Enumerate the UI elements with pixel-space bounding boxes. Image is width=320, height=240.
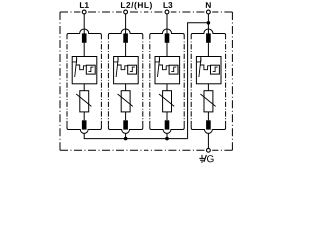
trip linkage (module L2) [117, 65, 127, 70]
label L2/(HL) [121, 2, 152, 10]
enclosure housing outline left (lower half) [59, 81, 61, 150]
disconnector box (module L2) [114, 57, 139, 84]
module L3 outline left side (dash-dot) [149, 42, 151, 125]
plug contact top (module N) [206, 33, 211, 42]
junction dot L2 on bus [124, 137, 128, 141]
step symbol inside indicator (module L3) [171, 67, 176, 72]
label N [206, 2, 211, 8]
varistor diagonal stroke (module L1) [76, 94, 91, 106]
disconnector box (module L1) [72, 57, 97, 84]
wire N module down to ground terminal [207, 133, 209, 148]
plug contact top (module L2) [123, 33, 128, 42]
wire L2 terminal down to top contact [125, 14, 127, 34]
disconnector switch blade (module L3) [158, 58, 160, 77]
module L1 outline right side (dash-dot) [100, 42, 102, 125]
trip linkage (module L3) [159, 65, 169, 70]
wire L3 drop to bus [166, 133, 168, 138]
terminal L3 [163, 10, 171, 13]
wire contact to disconnector box (N) [207, 43, 209, 57]
varistor body (module L3) [163, 91, 172, 112]
label L3 [164, 2, 173, 8]
enclosure housing outline bottom (left half) [60, 149, 146, 151]
label L1 [80, 2, 89, 8]
disconnector switch blade (module L1) [75, 58, 77, 77]
module L2 outline top edge with entry arc [108, 29, 142, 39]
module L1 outline top edge with entry arc [67, 29, 101, 39]
disconnector fixed contact lead (module L2) [114, 57, 118, 62]
wire varistor to bottom contact (N) [207, 112, 209, 120]
wire box to varistor (N) [207, 84, 209, 91]
wire box to varistor (L2) [125, 84, 127, 91]
module L2 outline left side (dash-dot) [107, 42, 109, 125]
trip indicator square (module L3) [169, 65, 178, 74]
wire box to varistor (L3) [166, 84, 168, 91]
plug contact top (module L3) [165, 33, 170, 42]
trip linkage (module L1) [76, 65, 86, 70]
module L1 outline bottom edge with exit arc [67, 124, 101, 133]
varistor diagonal stroke (module L3) [159, 94, 174, 106]
junction dot L3 on bus [165, 137, 169, 141]
earth symbol [199, 155, 204, 162]
ground terminal circle [205, 149, 213, 152]
varistor diagonal stroke (module N) [200, 94, 215, 106]
terminal L2 [122, 10, 130, 13]
enclosure housing outline bottom (right half) [146, 149, 232, 151]
disconnector box (module N) [196, 57, 221, 84]
wire L2 drop to bus [125, 133, 127, 138]
enclosure housing outline right (upper half) [231, 12, 233, 81]
plug contact bottom (module L3) [165, 120, 170, 129]
module N outline top edge with entry arc [191, 29, 225, 39]
wire bottom N bus [84, 133, 187, 138]
wire riser bus to N terminal [188, 23, 209, 139]
trip linkage (module N) [200, 65, 210, 70]
wire N terminal down to top contact [207, 14, 209, 34]
trip indicator square (module N) [211, 65, 220, 74]
module N outline left side (dash-dot) [190, 42, 192, 125]
varistor body (module N) [204, 91, 213, 112]
module L2 outline right side (dash-dot) [142, 42, 144, 125]
varistor body (module L1) [80, 91, 89, 112]
wire L3 terminal down to top contact [166, 14, 168, 34]
wire L1 terminal down to top contact [83, 14, 85, 34]
disconnector box (module L3) [155, 57, 180, 84]
varistor body (module L2) [121, 91, 130, 112]
wire contact to disconnector box (L2) [125, 43, 127, 57]
step symbol inside indicator (module N) [213, 67, 218, 72]
label /G [204, 155, 207, 162]
step symbol inside indicator (module L2) [130, 67, 135, 72]
module L3 outline bottom edge with exit arc [150, 124, 184, 133]
plug contact bottom (module L2) [123, 120, 128, 129]
wire contact to disconnector box (L1) [83, 43, 85, 57]
varistor diagonal stroke (module L2) [118, 94, 133, 106]
plug contact top (module L1) [82, 33, 87, 42]
enclosure housing outline left (upper half) [59, 12, 61, 81]
disconnector fixed contact lead (module N) [197, 57, 201, 62]
wire box to varistor (L1) [83, 84, 85, 91]
trip indicator square (module L2) [128, 65, 137, 74]
wire varistor to bottom contact (L1) [83, 112, 85, 120]
disconnector switch blade (module N) [199, 58, 201, 77]
module L3 outline right side (dash-dot) [183, 42, 185, 125]
plug contact bottom (module L1) [82, 120, 87, 129]
step symbol inside indicator (module L1) [89, 67, 94, 72]
disconnector switch blade (module L2) [116, 58, 118, 77]
module N outline bottom edge with exit arc [191, 124, 225, 133]
module L2 outline bottom edge with exit arc [108, 124, 142, 133]
plug contact bottom (module N) [206, 120, 211, 129]
trip indicator square (module L1) [86, 65, 95, 74]
disconnector fixed contact lead (module L1) [73, 57, 77, 62]
module N outline right side (dash-dot) [225, 42, 227, 125]
terminal L1 [80, 10, 88, 13]
disconnector fixed contact lead (module L3) [156, 57, 160, 62]
wire contact to disconnector box (L3) [166, 43, 168, 57]
module L3 outline top edge with entry arc [150, 29, 184, 39]
terminal N [205, 10, 213, 13]
enclosure housing outline top (right half) [146, 11, 232, 13]
module L1 outline left side (dash-dot) [66, 42, 68, 125]
junction dot N terminal [207, 21, 211, 25]
enclosure housing outline right (lower half) [231, 81, 233, 150]
wire varistor to bottom contact (L2) [125, 112, 127, 120]
wire varistor to bottom contact (L3) [166, 112, 168, 120]
enclosure housing outline top (left half) [60, 11, 146, 13]
